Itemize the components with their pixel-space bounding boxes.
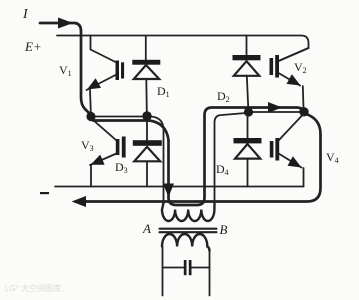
diode D4 cathode bar	[234, 138, 262, 143]
junction dot left midpoint D-side	[142, 111, 151, 120]
wire left midpoint between junction dots	[91, 116, 147, 118]
diode D4 triangle	[235, 144, 260, 159]
current arrow I (top-left, pointing right)	[58, 18, 73, 29]
diode D2 bottom lead	[247, 76, 249, 110]
diode D1 bottom lead	[145, 79, 148, 113]
transformer secondary winding	[162, 234, 210, 251]
thick current path: right midpoint around right side to bottom return with left arrow	[85, 114, 321, 202]
diode D1 top lead	[145, 36, 147, 60]
IGBT V4 emitter lead down to bottom rail	[303, 168, 305, 187]
thick current path: left midpoint to transformer, down arrow, U-turn, up to right, right arrow	[93, 108, 304, 206]
current arrow to right midpoint (pointing right)	[268, 102, 282, 113]
svg-text:A: A	[142, 221, 151, 236]
IGBT V4 emitter arrow	[288, 156, 302, 167]
wire capacitor branch left	[163, 267, 184, 269]
diode D4 top lead	[247, 114, 249, 138]
junction dot right midpoint B-side	[244, 107, 253, 116]
transformer core lines	[160, 228, 217, 230]
IGBT V3 collector slant from left dot	[93, 120, 117, 141]
capacitor plates	[184, 260, 192, 275]
diode D3 cathode bar	[133, 140, 162, 146]
diode D1 cathode bar	[132, 60, 160, 65]
IGBT V1 emitter arrow	[87, 78, 101, 89]
IGBT V4 gate bars	[270, 138, 279, 161]
label minus	[40, 192, 49, 194]
junction dot right midpoint V-side	[299, 107, 308, 116]
svg-text:B: B	[220, 222, 228, 237]
current arrow into transformer (pointing down)	[163, 184, 174, 198]
diode D1 triangle	[134, 65, 159, 79]
wire secondary right lead down	[209, 250, 211, 296]
diode D3 top lead	[146, 120, 148, 140]
junction dot left midpoint A-side	[86, 112, 95, 121]
thick current path: I input down through V1 to left midpoint	[40, 23, 89, 113]
IGBT V4 emitter slant	[279, 154, 302, 168]
wire top rail E+	[57, 35, 301, 37]
diode D3 bottom lead	[146, 161, 148, 186]
IGBT V3 gate bars	[116, 137, 126, 158]
wire right midpoint between junction dots	[249, 111, 304, 113]
IGBT V2 emitter arrow	[287, 74, 301, 85]
svg-text:LG° 大空间图库: LG° 大空间图库	[5, 283, 61, 293]
diode D4 bottom lead	[247, 159, 249, 187]
diode D2 cathode bar	[233, 55, 261, 60]
wire secondary left lead down	[162, 247, 164, 296]
IGBT V2 gate bars	[270, 55, 280, 78]
wire from left midpoint down to transformer terminal A	[151, 117, 164, 205]
diode D3 triangle	[134, 147, 160, 162]
IGBT V1 collector stub and slant	[91, 36, 117, 63]
wire top-right corner to V2 collector	[279, 36, 309, 62]
IGBT V2 emitter slant	[279, 73, 304, 108]
IGBT V3 emitter arrow	[91, 155, 105, 165]
svg-text:E+: E+	[24, 39, 42, 54]
IGBT V4 collector slant from right dot	[279, 115, 304, 141]
current arrow bottom return (pointing left)	[72, 196, 87, 207]
IGBT V2 collector slant	[279, 48, 309, 61]
IGBT V1 gate bars	[116, 61, 125, 81]
IGBT V3 emitter slant	[90, 154, 117, 166]
wire from transformer terminal B up to right midpoint	[215, 113, 247, 204]
diode D2 triangle	[234, 61, 259, 76]
transformer primary winding (terminal A to B)	[162, 203, 215, 221]
wire capacitor branch right	[192, 267, 210, 269]
IGBT V3 emitter lead to bottom rail	[90, 166, 92, 187]
diode D2 top lead	[246, 36, 248, 56]
IGBT V1 emitter slant	[87, 75, 117, 113]
wire bottom rail minus	[55, 186, 304, 188]
